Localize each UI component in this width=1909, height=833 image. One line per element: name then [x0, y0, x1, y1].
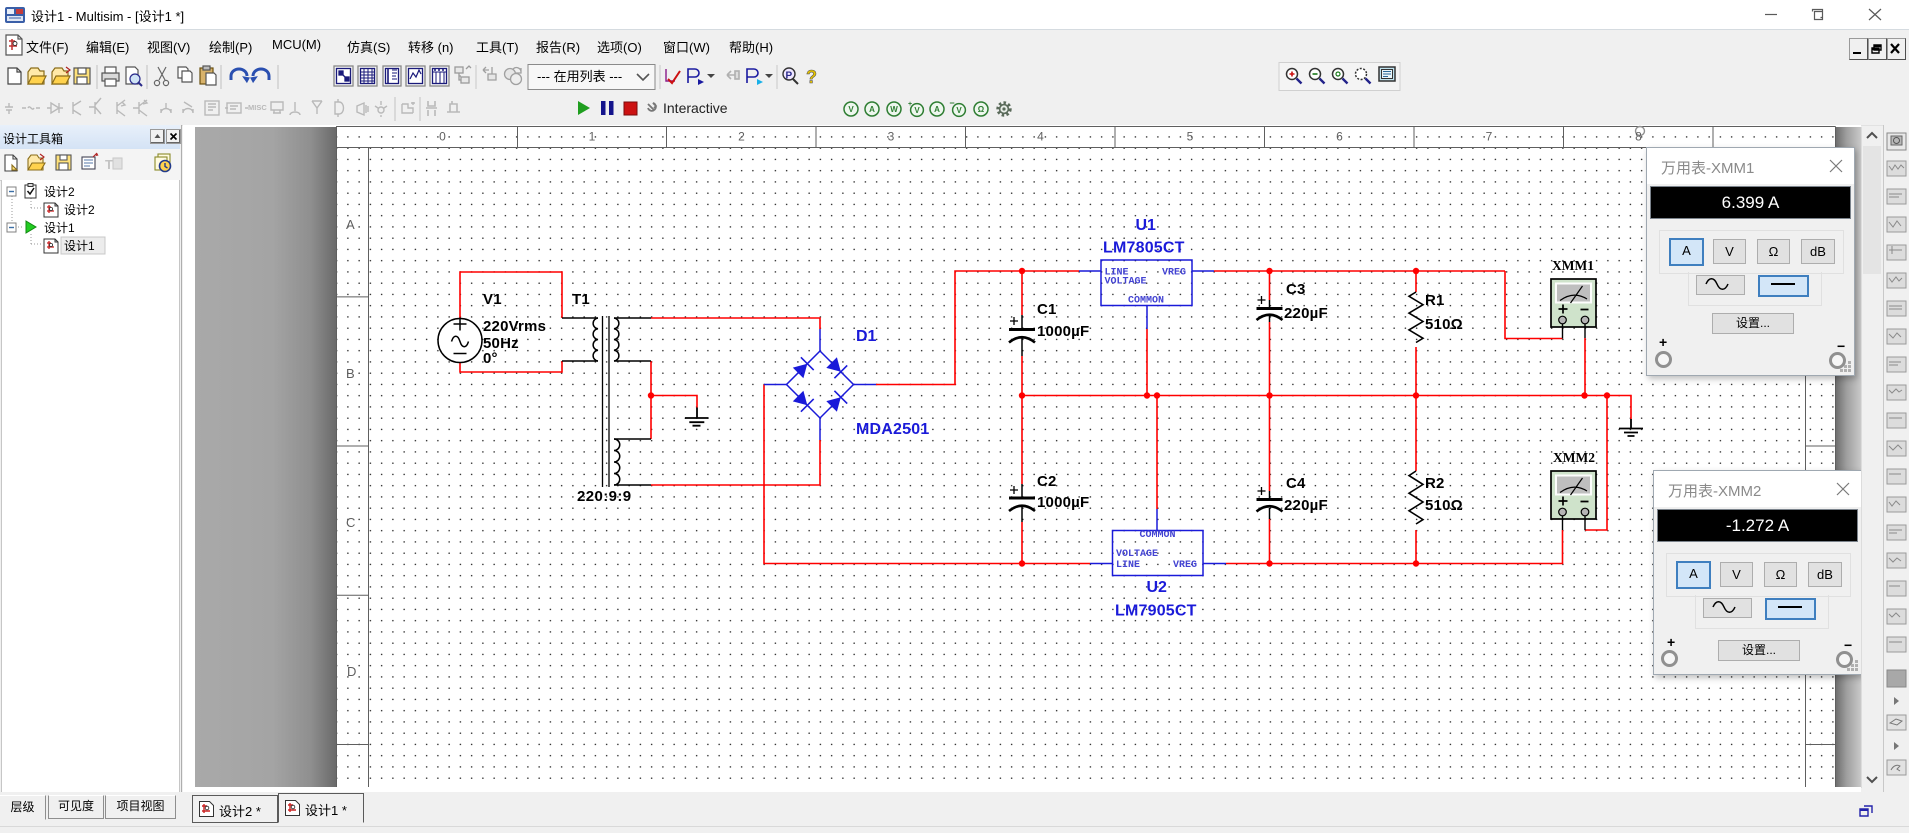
new	[8, 68, 21, 84]
wire bridge right output to top rail	[876, 271, 1079, 385]
sheet dot grid	[336, 126, 1835, 787]
wire C4 column	[1269, 396, 1271, 564]
multimeter XMM1 icon	[1551, 279, 1596, 339]
wire bridge left output down to lower rail	[764, 385, 1090, 564]
wire V1 bottom to T1 primary bottom	[460, 361, 562, 372]
svg-text:D1: D1	[856, 328, 877, 345]
junction XMM1 minus	[1581, 392, 1587, 398]
svg-text:1000µF: 1000µF	[1037, 494, 1089, 511]
wire C2 column	[1021, 396, 1023, 564]
copy	[178, 67, 188, 78]
in-use list combobox	[528, 65, 655, 90]
regulator U2 LM7905CT	[1090, 509, 1226, 576]
resistor R2	[1409, 471, 1423, 524]
resistor R1	[1409, 292, 1423, 342]
junction R1/R2 ground rail	[1413, 392, 1419, 398]
cursor marker	[1636, 127, 1645, 136]
svg-text:U1: U1	[1136, 217, 1157, 234]
menu bar	[0, 30, 1909, 61]
svg-text:XMM1: XMM1	[1552, 258, 1594, 273]
svg-text:T1: T1	[572, 291, 590, 308]
svg-text:LM7805CT: LM7805CT	[1103, 240, 1185, 257]
svg-text:510Ω: 510Ω	[1425, 497, 1463, 514]
zone dividers: right margin	[1806, 297, 1836, 745]
MDI child window buttons	[1849, 38, 1868, 60]
wire T1 center tap	[651, 361, 697, 439]
junction XMM2 minus	[1604, 392, 1610, 398]
junction C1 top	[1019, 268, 1025, 274]
multimeter dialog XMM1	[1646, 147, 1855, 376]
diode D1a top-left	[793, 357, 814, 378]
junction U2 COMMON	[1154, 392, 1160, 398]
sheet inner border	[337, 148, 1836, 788]
svg-text:MDA2501: MDA2501	[856, 421, 929, 438]
bridge rectifier D1	[764, 329, 876, 440]
diode D1d bottom-right	[826, 391, 847, 412]
bridge leads	[764, 329, 876, 440]
capacitor C4	[1257, 487, 1283, 519]
zone numbers	[439, 130, 1642, 144]
print	[102, 73, 119, 81]
preview	[126, 67, 138, 84]
svg-text:220µF: 220µF	[1284, 305, 1328, 322]
junction C2 bottom	[1019, 560, 1025, 566]
wire C3 column	[1269, 271, 1271, 396]
wire R2 column	[1415, 396, 1417, 564]
multimeter dialog XMM2	[1653, 470, 1862, 675]
multimeter XMM2 icon	[1551, 471, 1596, 530]
status bar	[0, 826, 1909, 833]
svg-text:0°: 0°	[483, 350, 498, 367]
diode D1c bottom-left	[793, 391, 814, 412]
junction U1 COMMON	[1144, 392, 1150, 398]
wire V1 top to T1 primary top	[460, 272, 562, 318]
ground near center tap	[685, 408, 709, 426]
svg-text:V1: V1	[483, 291, 502, 308]
svg-text:510Ω: 510Ω	[1425, 316, 1463, 333]
wire XMM2 minus to rail	[1585, 396, 1607, 531]
window title bar	[0, 0, 1909, 30]
svg-text:VREG: VREG	[1162, 268, 1186, 279]
gear	[998, 103, 1010, 115]
svg-text:220Vrms: 220Vrms	[483, 318, 546, 335]
capacitor C2	[1009, 484, 1035, 522]
probe buttons	[844, 98, 1010, 116]
transformer T1	[562, 316, 651, 487]
svg-text:C2: C2	[1037, 473, 1057, 490]
wire bridge bottom to T1 secondary bottom	[651, 440, 820, 485]
bridge diamond body	[787, 351, 854, 418]
svg-text:COMMON: COMMON	[1128, 296, 1164, 307]
wire top rail right of U1	[1214, 270, 1505, 272]
left design toolbox panel	[0, 125, 182, 792]
capacitor C1	[1009, 315, 1035, 356]
capacitor C3	[1257, 296, 1283, 322]
svg-text:VOLTAGE: VOLTAGE	[1116, 549, 1158, 560]
redo	[253, 69, 269, 80]
bottom tabs	[0, 792, 1909, 826]
svg-text:VOLTAGE: VOLTAGE	[1105, 277, 1147, 288]
svg-text:XMM2: XMM2	[1553, 450, 1595, 465]
wire lower rail right of U2 to XMM2 plus	[1226, 530, 1563, 564]
diode D1b top-right	[826, 357, 847, 378]
open	[28, 68, 44, 84]
svg-text:1000µF: 1000µF	[1037, 323, 1089, 340]
junction C3/C4 ground rail	[1266, 392, 1272, 398]
svg-text:LINE: LINE	[1116, 560, 1140, 571]
row 1: design2 project	[7, 187, 16, 196]
svg-text:220µF: 220µF	[1284, 497, 1328, 514]
wire top rail to XMM1 plus	[1505, 271, 1563, 339]
AC source V1	[438, 318, 482, 363]
zoom toolbar island	[1279, 63, 1400, 91]
junction C3 top	[1266, 268, 1272, 274]
simulation controls	[578, 100, 728, 116]
svg-text:C4: C4	[1286, 475, 1306, 492]
ground right	[1619, 419, 1643, 436]
svg-text:C1: C1	[1037, 301, 1057, 318]
svg-text:R1: R1	[1425, 292, 1445, 309]
junction C1/C2 ground rail	[1019, 392, 1025, 398]
wire U1 COMMON to rail	[1146, 329, 1148, 396]
wire XMM1 minus to rail	[1584, 338, 1586, 396]
right scrollbar	[1861, 127, 1882, 788]
svg-text:C3: C3	[1286, 281, 1306, 298]
svg-text:R2: R2	[1425, 475, 1445, 492]
workspace	[183, 125, 1861, 792]
row 3: design1 project	[7, 223, 16, 232]
wire U2 COMMON to rail	[1156, 396, 1158, 510]
toolbar row 2	[0, 93, 1909, 126]
open2	[52, 68, 68, 84]
row 2: sheet design2	[44, 203, 58, 217]
regulator U1 LM7805CT	[1079, 260, 1214, 329]
junction R2 bottom	[1413, 560, 1419, 566]
ruler ticks top	[518, 127, 1714, 148]
svg-text:220:9:9: 220:9:9	[577, 488, 632, 505]
zone letters	[346, 217, 356, 679]
cut	[158, 67, 166, 80]
junction R1 top	[1413, 268, 1419, 274]
sheet outer border	[337, 127, 1836, 788]
junction center-tap node	[648, 392, 654, 398]
svg-text:U2: U2	[1147, 579, 1168, 596]
paste	[200, 68, 213, 84]
row 4: sheet design1 (selected)	[61, 237, 105, 254]
wire R1 column	[1415, 271, 1417, 396]
svg-text:COMMON: COMMON	[1140, 530, 1176, 541]
window-view toggle icons	[334, 66, 471, 86]
svg-text:LM7905CT: LM7905CT	[1115, 603, 1197, 620]
wire T1 secondary top to bridge top	[651, 318, 820, 329]
svg-text:VREG: VREG	[1173, 560, 1197, 571]
junction C4 bottom	[1266, 560, 1272, 566]
wire C1 column	[1021, 271, 1023, 396]
faded component-palette icons	[5, 97, 460, 121]
instruments toolbar	[1883, 125, 1909, 808]
zone dividers: left margin	[337, 297, 369, 745]
undo	[231, 69, 247, 80]
grayed transfer icons	[483, 67, 522, 85]
save	[74, 68, 90, 84]
toolbar row 1	[0, 61, 1909, 93]
wire middle ground rail	[1022, 396, 1631, 420]
